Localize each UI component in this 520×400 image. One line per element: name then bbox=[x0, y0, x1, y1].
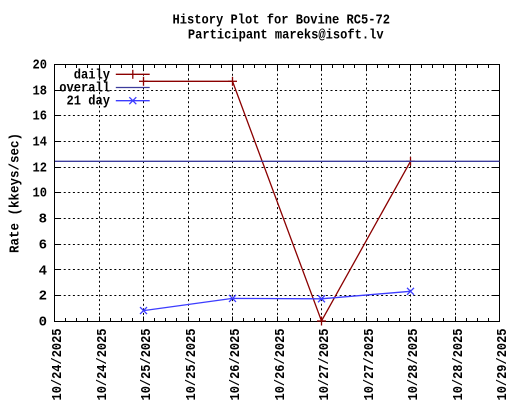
svg-text:21 day: 21 day bbox=[67, 94, 111, 110]
svg-text:10/26/2025: 10/26/2025 bbox=[228, 329, 244, 400]
grid vertical dotted lines bbox=[100, 65, 456, 322]
x-axis major ticks top bbox=[100, 65, 456, 70]
svg-text:Participant mareks@isoft.lv: Participant mareks@isoft.lv bbox=[188, 28, 384, 44]
svg-text:10/27/2025: 10/27/2025 bbox=[317, 329, 333, 400]
svg-text:10: 10 bbox=[33, 186, 48, 202]
svg-text:14: 14 bbox=[33, 135, 48, 151]
svg-text:10/29/2025: 10/29/2025 bbox=[495, 329, 511, 400]
overall series line bbox=[55, 160, 500, 162]
svg-text:4: 4 bbox=[39, 264, 47, 280]
legend 21 day sample line with x marker bbox=[116, 97, 150, 104]
svg-text:16: 16 bbox=[33, 109, 48, 125]
x-axis major ticks bottom bbox=[100, 317, 456, 322]
svg-text:2: 2 bbox=[39, 289, 47, 305]
21 day series line bbox=[144, 291, 411, 310]
svg-text:10/26/2025: 10/26/2025 bbox=[273, 329, 289, 400]
svg-text:10/24/2025: 10/24/2025 bbox=[50, 329, 66, 400]
svg-text:10/28/2025: 10/28/2025 bbox=[406, 329, 422, 400]
y-axis major ticks left bbox=[55, 91, 61, 296]
svg-text:8: 8 bbox=[39, 212, 47, 228]
svg-text:Rate (kkeys/sec): Rate (kkeys/sec) bbox=[8, 133, 24, 253]
svg-text:0: 0 bbox=[39, 315, 47, 331]
svg-text:10/24/2025: 10/24/2025 bbox=[95, 329, 111, 400]
x-axis minor ticks top bbox=[66, 65, 489, 68]
svg-text:10/27/2025: 10/27/2025 bbox=[362, 329, 378, 400]
y-axis major ticks right bbox=[494, 91, 500, 296]
svg-text:20: 20 bbox=[33, 58, 48, 74]
legend daily sample line with + marker bbox=[116, 70, 150, 79]
x-axis minor ticks bottom bbox=[66, 318, 489, 321]
daily series + markers bbox=[139, 77, 415, 326]
svg-text:18: 18 bbox=[33, 84, 48, 100]
plot border bbox=[55, 65, 500, 322]
svg-text:12: 12 bbox=[33, 161, 48, 177]
svg-text:10/28/2025: 10/28/2025 bbox=[451, 329, 467, 400]
legend overall sample line bbox=[116, 87, 150, 89]
svg-text:6: 6 bbox=[39, 238, 47, 254]
grid horizontal dotted lines bbox=[55, 91, 500, 296]
y-axis tick labels bbox=[33, 58, 48, 331]
svg-text:10/25/2025: 10/25/2025 bbox=[139, 329, 155, 400]
svg-text:History Plot for Bovine RC5-72: History Plot for Bovine RC5-72 bbox=[173, 13, 391, 29]
21 day series x markers bbox=[140, 288, 414, 314]
svg-text:10/25/2025: 10/25/2025 bbox=[184, 329, 200, 400]
daily series line bbox=[144, 81, 411, 321]
x-axis date labels bbox=[50, 329, 511, 400]
